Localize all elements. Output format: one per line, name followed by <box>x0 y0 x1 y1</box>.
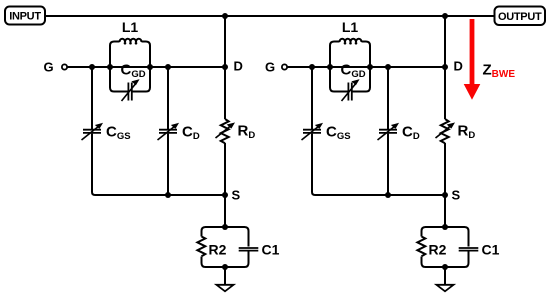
wire R2-C1 loop (stage 2) <box>422 227 469 267</box>
wire L1-CGD tank loop (stage 1) <box>110 42 150 92</box>
wire L1-CGD tank loop (stage 2) <box>330 42 370 92</box>
wire D column lower (stage 2) <box>444 143 446 195</box>
svg-text:C1: C1 <box>262 242 280 258</box>
svg-text:INPUT: INPUT <box>9 11 41 23</box>
capacitor C_GS (stage 1) <box>82 124 103 140</box>
wire D column upper (stage 2) <box>444 16 446 119</box>
svg-text:R2: R2 <box>209 242 227 258</box>
wire R2-C1 loop (stage 1) <box>202 227 249 267</box>
junction tank right (stage 1) <box>147 64 153 70</box>
junction CD top (stage 1) <box>165 64 171 70</box>
svg-text:G: G <box>265 60 275 75</box>
svg-text:G: G <box>44 60 54 75</box>
wire CD upper (stage 2) <box>387 67 389 129</box>
junction tank right (stage 2) <box>367 64 373 70</box>
impedance arrow Z_BWE <box>464 19 481 100</box>
resistor R_D (stage 2) <box>436 119 455 143</box>
capacitor C_D (stage 1) <box>158 124 179 140</box>
junction CD bottom (stage 1) <box>165 192 171 198</box>
wire CD lower (stage 1) <box>167 134 169 195</box>
resistor R_D (stage 1) <box>216 119 235 143</box>
capacitor C1 (stage 2) <box>459 248 479 251</box>
junction CGS top (stage 1) <box>89 64 95 70</box>
wire to ground (stage 2) <box>444 267 446 285</box>
capacitor C_GD (stage 1) <box>122 80 139 101</box>
svg-text:L1: L1 <box>342 19 359 35</box>
junction tank left (stage 2) <box>327 64 333 70</box>
capacitor C_GS (stage 2) <box>302 124 323 140</box>
node S (stage 1) <box>222 188 241 203</box>
resistor R2 (stage 2) <box>417 237 425 257</box>
junction CD top (stage 2) <box>385 64 391 70</box>
junction R2-C1 top (stage 2) <box>442 224 448 230</box>
node G (stage 2) <box>265 60 287 75</box>
svg-text:S: S <box>232 188 241 203</box>
wire CGS lower to S rail (stage 2) <box>312 134 445 195</box>
svg-text:R2: R2 <box>429 242 447 258</box>
wire G to D (stage 1) <box>67 66 225 68</box>
wire D column lower (stage 1) <box>224 143 226 195</box>
svg-text:S: S <box>452 188 461 203</box>
junction top rail stage 2 <box>442 13 448 19</box>
OUTPUT terminal <box>495 7 546 26</box>
wire S to R2-C1 (stage 1) <box>224 195 226 227</box>
resistor R2 (stage 1) <box>197 237 205 257</box>
svg-text:C1: C1 <box>482 242 500 258</box>
junction CGS top (stage 2) <box>309 64 315 70</box>
junction top rail stage 1 <box>222 13 228 19</box>
ground (stage 2) <box>437 285 454 292</box>
wire CD upper (stage 1) <box>167 67 169 129</box>
ground (stage 1) <box>217 285 234 292</box>
junction CD bottom (stage 2) <box>385 192 391 198</box>
node D (stage 1) <box>222 59 243 74</box>
wire S to R2-C1 (stage 2) <box>444 195 446 227</box>
wire CD lower (stage 2) <box>387 134 389 195</box>
junction R2-C1 top (stage 1) <box>222 224 228 230</box>
wire D column upper (stage 1) <box>224 16 226 119</box>
node G (stage 1) <box>44 60 68 75</box>
svg-text:L1: L1 <box>122 19 139 35</box>
junction R2-C1 bottom (stage 1) <box>222 264 228 270</box>
svg-text:D: D <box>234 59 243 74</box>
svg-text:D: D <box>454 59 463 74</box>
junction R2-C1 bottom (stage 2) <box>442 264 448 270</box>
INPUT terminal <box>5 7 45 25</box>
junction tank left (stage 1) <box>107 64 113 70</box>
svg-text:OUTPUT: OUTPUT <box>498 11 542 23</box>
capacitor C_GD (stage 2) <box>342 80 359 101</box>
inductor L1 (stage 2) <box>340 39 362 42</box>
capacitor C1 (stage 1) <box>239 248 259 251</box>
wire G to D (stage 2) <box>287 66 445 68</box>
wire CGS upper (stage 2) <box>311 67 313 129</box>
wire to ground (stage 1) <box>224 267 226 285</box>
node S (stage 2) <box>442 188 461 203</box>
wire top rail <box>45 15 495 17</box>
wire CGS upper (stage 1) <box>91 67 93 129</box>
node D (stage 2) <box>442 59 463 74</box>
inductor L1 (stage 1) <box>120 39 142 42</box>
capacitor C_D (stage 2) <box>378 124 399 140</box>
wire CGS lower to S rail (stage 1) <box>92 134 225 195</box>
